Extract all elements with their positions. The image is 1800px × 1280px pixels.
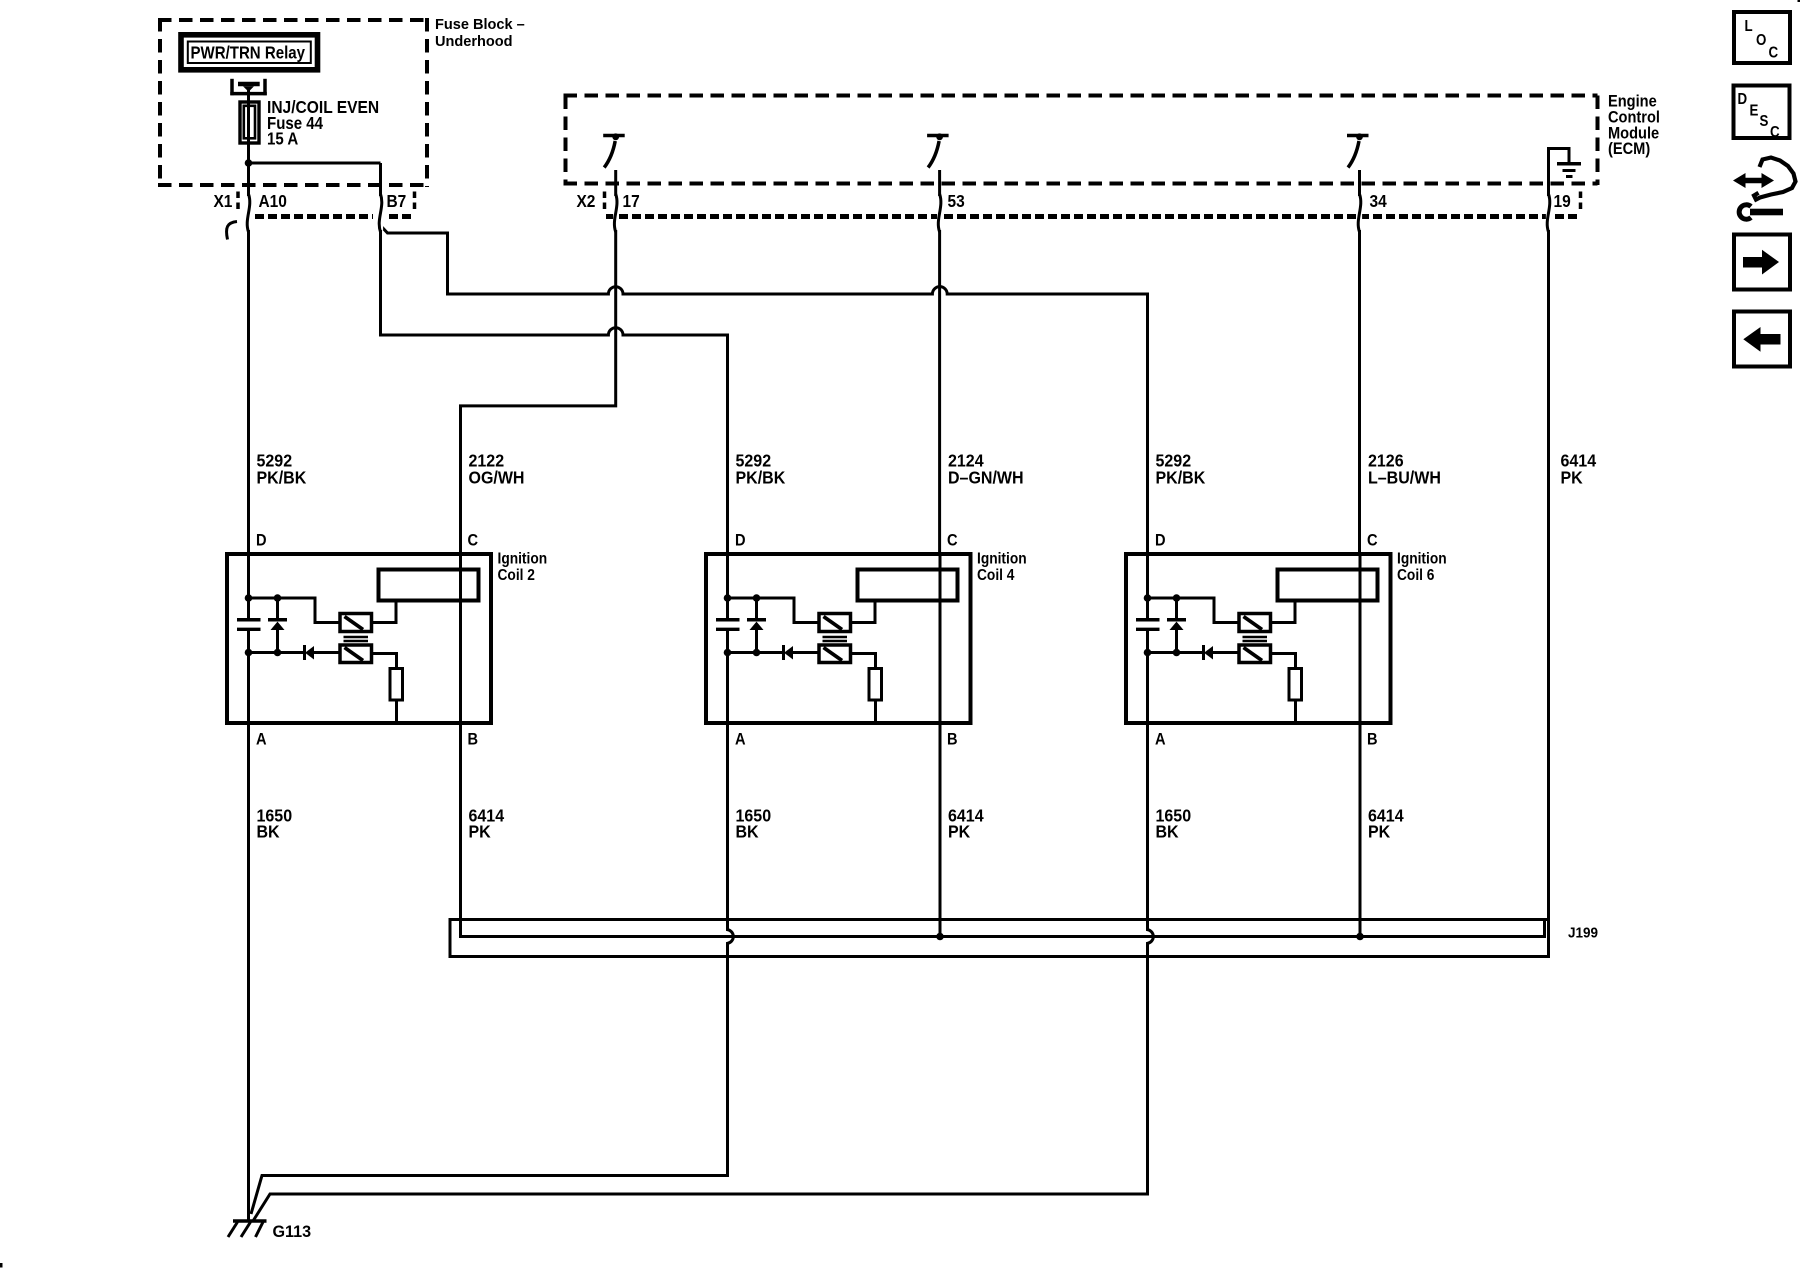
svg-text:C: C [947,532,958,550]
svg-text:Coil 2: Coil 2 [498,566,535,584]
coil 2 diode [305,645,341,660]
svg-text:X2: X2 [577,191,596,211]
svg-text:PK: PK [469,822,492,842]
ECM driver transistor switch pin 17 [603,133,625,167]
coil 4 resistor [869,669,882,701]
svg-text:19: 19 [1554,191,1571,211]
coil 4 zener diode [747,598,766,653]
coil 6 bottom link wire [1148,651,1204,654]
coil 2 node junctions [245,594,282,656]
label wire 6414 PK [1368,806,1404,842]
coil 4 driver stage lower box [819,645,851,663]
coil 6 top link wire [1148,598,1240,623]
relay K PWR/TRN Relay name box [181,35,318,70]
svg-text:A: A [735,731,746,749]
wire fuse output to B7 [249,162,381,165]
svg-text:Fuse Block –: Fuse Block – [435,17,525,33]
label wire 5292 PK/BK [1156,451,1206,488]
svg-text:D: D [256,532,267,550]
coil 2 driver stage upper box [340,614,372,632]
coil 2 isolation bars [344,637,369,641]
coil 4 driver stage upper box [819,614,851,632]
coil 4 top link wire [728,598,820,623]
ignition coil 2 outer box [227,554,491,723]
svg-text:OG/WH: OG/WH [469,468,525,488]
wire coil 2 pin A to ground G113 1650 BK [247,723,250,1221]
svg-text:C: C [1769,44,1779,61]
coil 2 winding box [379,570,479,601]
coil 6 wire lower box to resistor [1271,654,1296,669]
svg-text:D: D [1738,91,1748,108]
svg-text:Underhood: Underhood [435,34,513,50]
svg-text:C: C [1367,532,1378,550]
svg-text:A10: A10 [259,191,287,211]
coil 4 bottom link wire [728,651,784,654]
coil 6 capacitor [1136,620,1160,630]
svg-text:C: C [468,532,479,550]
ignition coil 6 outer box [1126,554,1391,723]
coil 4 resistor to case wire [874,700,877,723]
svg-text:Coil 4: Coil 4 [977,566,1015,584]
coil 2 capacitor [237,620,261,630]
splice J199 enclosure [450,920,1549,957]
label Fuse Block - Underhood [435,17,525,50]
fuse block underhood dashed box [158,18,427,187]
label Ignition Coil 4 [977,550,1027,585]
svg-text:J199: J199 [1568,925,1598,942]
svg-text:B: B [1367,731,1378,749]
coil 6 zener diode [1167,598,1186,653]
ECM driver transistor switch pin 53 [927,133,949,167]
svg-text:C: C [1770,124,1780,141]
connector pass-through mark [1357,196,1362,230]
label wire 6414 PK [1561,451,1597,488]
coil 2 internal left wire pin D [247,554,250,723]
svg-text:BK: BK [1156,822,1180,842]
svg-text:PK/BK: PK/BK [736,468,786,488]
icon wiring repair double arrow and wrench [1733,158,1796,220]
label Ignition Coil 6 [1397,550,1447,585]
label wire 1650 BK [1156,806,1192,842]
coil 2 resistor [390,669,403,701]
label wire 5292 PK/BK [257,451,307,488]
label wire 5292 PK/BK [736,451,786,488]
wire B7 to Ignition Coil 4 pin D (5292 lower) [381,226,728,554]
coil 4 capacitor [716,620,740,630]
label Ignition Coil 2 [498,550,548,585]
svg-text:E: E [1750,102,1759,119]
svg-text:PK: PK [948,822,971,842]
svg-text:B: B [947,731,958,749]
label Engine Control Module (ECM) [1608,93,1660,159]
svg-text:(ECM): (ECM) [1608,140,1650,158]
page corner mark top right [1798,0,1800,2]
svg-text:17: 17 [623,191,640,211]
label wire 1650 BK [736,806,772,842]
svg-text:53: 53 [948,191,965,211]
wire ECM pin 19 ground 6414 PK [1547,170,1550,920]
label wire 6414 PK [948,806,984,842]
coil 6 winding box [1278,570,1378,601]
wire ECM pin 53 to Ignition Coil 4 pin C 2124 D-GN/WH [938,170,941,554]
svg-text:PK: PK [1561,468,1584,488]
coil 4 winding box [858,570,958,601]
coil 4 node junctions [724,594,761,656]
svg-text:34: 34 [1370,191,1388,211]
coil 6 node junctions [1144,594,1181,656]
connector pass-through mark [613,196,618,230]
icon box DESC [1734,86,1790,142]
coil 6 wire upper box to coil winding [1271,601,1296,623]
svg-text:PK: PK [1368,822,1391,842]
wire branch B7 to Ignition Coil 6 pin D (5292 upper) [381,226,1148,555]
junction node below fuse 44 [245,159,253,167]
svg-text:A: A [1155,731,1166,749]
svg-text:PK/BK: PK/BK [257,468,307,488]
label wire 2126 L–BU/WH [1368,451,1441,488]
coil 2 wire lower box to resistor [372,654,397,669]
coil 6 resistor to case wire [1294,700,1297,723]
svg-text:L–BU/WH: L–BU/WH [1368,468,1441,488]
svg-text:BK: BK [257,822,281,842]
coil 6 diode [1204,645,1240,660]
connector pass-through mark [937,196,942,230]
coil 2 driver stage lower box [340,645,372,663]
coil 6 internal right wire pin C to B [1359,554,1362,723]
svg-text:B: B [468,731,479,749]
fuse F44 INJ/COIL EVEN 15A [240,102,259,163]
coil 6 driver stage upper box [1239,614,1271,632]
coil 4 wire upper box to coil winding [851,601,876,623]
wire coil 4 pin B to splice J199 [939,723,942,937]
coil 4 internal left wire pin D [726,554,729,723]
icon box LOC [1734,12,1790,63]
svg-text:B7: B7 [387,191,407,211]
ground G113 symbol [228,1221,267,1237]
coil 4 wire lower box to resistor [851,654,876,669]
connector pass-through mark [246,196,251,230]
wire ECM pin 17 to Ignition Coil 2 pin C 2122 OG/WH [461,170,616,554]
connector pass-through mark [378,196,383,230]
svg-text:S: S [1760,113,1769,130]
svg-text:L: L [1745,18,1753,35]
relay contact switch of PWR/TRN Relay [230,79,266,95]
coil 4 diode [784,645,820,660]
label wire 2124 D–GN/WH [948,451,1024,488]
coil 6 internal left wire pin D [1146,554,1149,723]
svg-text:X1: X1 [214,191,233,211]
svg-text:15 A: 15 A [267,129,298,148]
ignition coil 4 outer box [706,554,971,723]
coil 4 isolation bars [823,637,848,641]
wire coil 4 pin A to ground 1650 BK [251,723,733,1214]
connector pass-through mark [1546,196,1551,230]
coil 6 resistor [1289,669,1302,701]
wire A10 fuse to Ignition Coil 2 pin D 5292 PK/BK [247,163,250,554]
wire coil 2 pin B to splice J199 6414 PK [461,723,1545,937]
junction dot J199 coil 4 [936,933,944,941]
label wire 2122 OG/WH [469,451,525,488]
junction dot J199 coil 6 [1356,933,1364,941]
connector half hook at X1 [227,222,237,240]
icon box back arrow [1734,312,1790,367]
svg-text:PWR/TRN Relay: PWR/TRN Relay [191,42,306,63]
coil 2 bottom link wire [249,651,305,654]
coil 2 zener diode [268,598,287,653]
connector X2 row dotted line [605,192,1581,217]
label INJ/COIL EVEN Fuse 44 15 A [267,97,379,149]
icon box forward arrow [1734,235,1790,290]
coil 2 wire upper box to coil winding [372,601,397,623]
coil 2 internal right wire pin C to B [459,554,462,723]
wire coil 6 pin A to ground 1650 BK [253,723,1153,1221]
wire ECM pin 34 to Ignition Coil 6 pin C 2126 L-BU/WH [1358,170,1361,554]
svg-text:A: A [256,731,267,749]
svg-text:PK/BK: PK/BK [1156,468,1206,488]
Engine Control Module dashed box [564,96,1598,186]
ECM internal ground pin 19 [1549,149,1582,177]
ECM driver transistor switch pin 34 [1347,133,1369,167]
coil 6 driver stage lower box [1239,645,1271,663]
coil 2 resistor to case wire [395,700,398,723]
svg-text:Coil 6: Coil 6 [1397,566,1434,584]
connector X1 row dotted line [238,192,415,217]
svg-text:G113: G113 [273,1222,312,1241]
coil 6 isolation bars [1243,637,1268,641]
label wire 1650 BK [257,806,293,842]
page corner mark bottom left [0,1263,3,1268]
coil 4 internal right wire pin C to B [939,554,942,723]
svg-text:D: D [1155,532,1166,550]
svg-text:BK: BK [736,822,760,842]
svg-text:O: O [1756,32,1766,49]
svg-text:D–GN/WH: D–GN/WH [948,468,1024,488]
coil 2 top link wire [249,598,341,623]
label wire 6414 PK [469,806,505,842]
svg-text:D: D [735,532,746,550]
wire B7 vertical feed [379,163,382,226]
wire coil 6 pin B to splice J199 [1359,723,1362,937]
wire from relay to fuse [247,88,250,103]
